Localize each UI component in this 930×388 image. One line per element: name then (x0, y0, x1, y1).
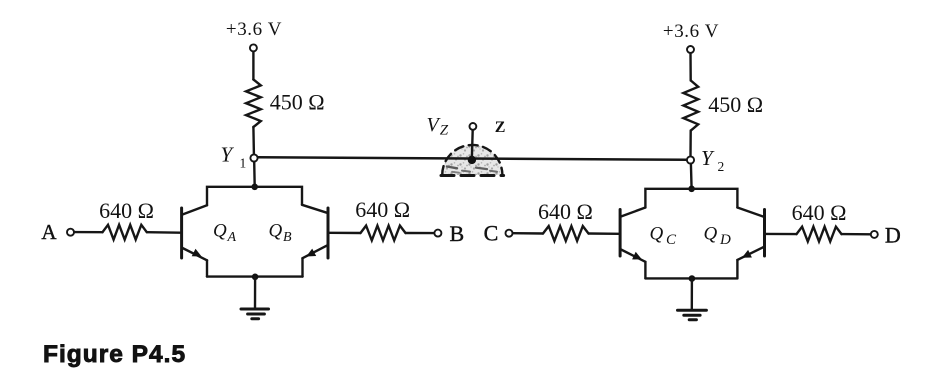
label QD (704, 224, 732, 249)
label 640 ohm (C) (538, 199, 593, 224)
resistor 640ohm (C) (543, 226, 589, 241)
wire A to resistor (74, 231, 102, 233)
wire QA emitter down (left corner) (206, 260, 208, 276)
wire Z stem (471, 130, 474, 157)
wire QC emitter down (left corner) (644, 262, 646, 279)
label 640 ohm (B) (355, 197, 410, 222)
svg-text:B: B (283, 230, 292, 245)
label 450 ohm (left) (270, 90, 325, 115)
wire resistor to terminal D (842, 233, 871, 236)
wire QD base to resistor (766, 233, 797, 236)
label +3.6 V (right) (663, 21, 719, 42)
transistor QC collector (621, 208, 645, 217)
svg-text:Z: Z (440, 123, 449, 139)
label 640 ohm (D) (792, 200, 847, 225)
wire resistor to QA base (147, 231, 180, 234)
label QB (269, 221, 293, 246)
svg-text:640 Ω: 640 Ω (99, 198, 154, 223)
svg-text:+3.6 V: +3.6 V (663, 21, 719, 42)
wire resistor to terminal B (406, 232, 435, 235)
svg-text:Q: Q (269, 221, 283, 242)
resistor 450ohm (left) (246, 80, 261, 128)
svg-text:D: D (885, 223, 901, 248)
wired-AND dome dashed outline (442, 145, 502, 175)
terminal A (67, 229, 74, 236)
wire supply to resistor (right) (689, 53, 692, 80)
wire QB emitter down (right corner) (301, 258, 303, 276)
svg-text:A: A (227, 230, 237, 245)
svg-text:450 Ω: 450 Ω (708, 92, 763, 117)
wire supply to resistor (left) (252, 52, 254, 80)
caption Figure P4.5 (43, 341, 186, 368)
transistor QA collector (183, 205, 208, 214)
wired-AND dome shading at node Z (442, 145, 502, 175)
label +3.6 V (left) (226, 19, 282, 40)
svg-text:A: A (41, 220, 57, 244)
wire collector top rail (left) (207, 187, 302, 206)
ground (left) (241, 309, 269, 319)
resistor 450ohm (right) (683, 81, 698, 131)
svg-text:450 Ω: 450 Ω (270, 90, 325, 115)
svg-text:Z: Z (495, 119, 506, 136)
label 640 ohm (A) (99, 198, 154, 223)
label Y1 (221, 142, 247, 170)
wire Y2 to collector rail (690, 164, 693, 189)
terminal D (871, 231, 878, 238)
transistor QA emitter arrow (192, 249, 202, 257)
transistor QD base bar (763, 210, 766, 257)
ground (right) (678, 310, 707, 320)
svg-text:B: B (449, 221, 464, 246)
junction dot bottom rail (right) (689, 275, 696, 282)
svg-text:C: C (666, 232, 677, 248)
wire Y1 to Y2 (output bus) (258, 157, 687, 160)
label Y2 (701, 146, 724, 174)
wire resistor to Y1 (252, 127, 255, 154)
svg-text:Figure P4.5: Figure P4.5 (43, 341, 186, 368)
transistor QB base bar (327, 208, 330, 258)
transistor QC base bar (619, 210, 622, 257)
svg-text:640 Ω: 640 Ω (355, 197, 410, 222)
wire collector top rail (right) (645, 189, 737, 208)
wire QD emitter down (right corner) (736, 260, 738, 279)
terminal C (506, 230, 513, 237)
transistor QA base bar (180, 208, 183, 258)
label C (484, 220, 499, 245)
transistor QD emitter arrow (742, 250, 752, 258)
junction dot top rail (left) (251, 184, 258, 191)
wire QB base to resistor (329, 232, 360, 235)
terminal +3.6V (right) (687, 46, 694, 53)
terminal +3.6V (left) (250, 44, 257, 51)
transistor QB emitter arrow (306, 249, 316, 257)
svg-text:D: D (719, 232, 731, 248)
svg-text:2: 2 (718, 159, 725, 174)
transistor QA emitter (183, 248, 208, 260)
transistor QB collector (302, 205, 327, 213)
resistor 640ohm (D) (797, 227, 842, 242)
svg-text:640 Ω: 640 Ω (538, 199, 593, 224)
svg-text:640 Ω: 640 Ω (792, 200, 847, 225)
wire emitter bottom rail (left gate) (207, 275, 303, 277)
terminal Z (470, 123, 477, 130)
label B (449, 221, 464, 246)
wire to ground (left) (254, 277, 257, 309)
svg-text:1: 1 (240, 155, 247, 170)
transistor QB emitter (303, 245, 328, 258)
svg-text:Q: Q (213, 221, 227, 242)
label Vz (427, 114, 449, 139)
wire resistor to QC base (589, 232, 619, 235)
wire Y1 to collector rail (253, 162, 256, 187)
svg-text:Q: Q (650, 224, 664, 245)
label 450 ohm (right) (708, 92, 763, 117)
svg-text:C: C (484, 220, 499, 245)
node Y1 terminal (250, 154, 257, 161)
terminal B (434, 230, 441, 237)
resistor 640ohm (A) (103, 225, 147, 240)
label QA (213, 221, 237, 246)
wire resistor to Y2 (689, 131, 692, 157)
node Z junction dot (468, 156, 476, 164)
wired-AND dome dashed base (441, 174, 504, 177)
label A (41, 220, 57, 244)
junction dot top rail (right) (688, 186, 695, 193)
label D (885, 223, 901, 248)
transistor QC emitter arrow (632, 252, 642, 260)
transistor QC emitter (621, 250, 645, 262)
transistor QD collector (737, 208, 763, 217)
svg-text:Q: Q (704, 224, 718, 245)
resistor 640ohm (B) (361, 226, 406, 241)
wire emitter bottom rail (right gate) (645, 277, 737, 279)
label QC (650, 224, 678, 249)
wire to ground (right) (691, 279, 694, 311)
junction dot bottom rail (left) (252, 274, 259, 281)
wire C to resistor (513, 232, 543, 235)
label Z (495, 119, 506, 136)
svg-text:+3.6 V: +3.6 V (226, 19, 282, 40)
transistor QD emitter (737, 247, 763, 260)
svg-text:Y: Y (221, 142, 235, 166)
node Y2 terminal (687, 156, 694, 163)
svg-text:Y: Y (701, 146, 715, 170)
